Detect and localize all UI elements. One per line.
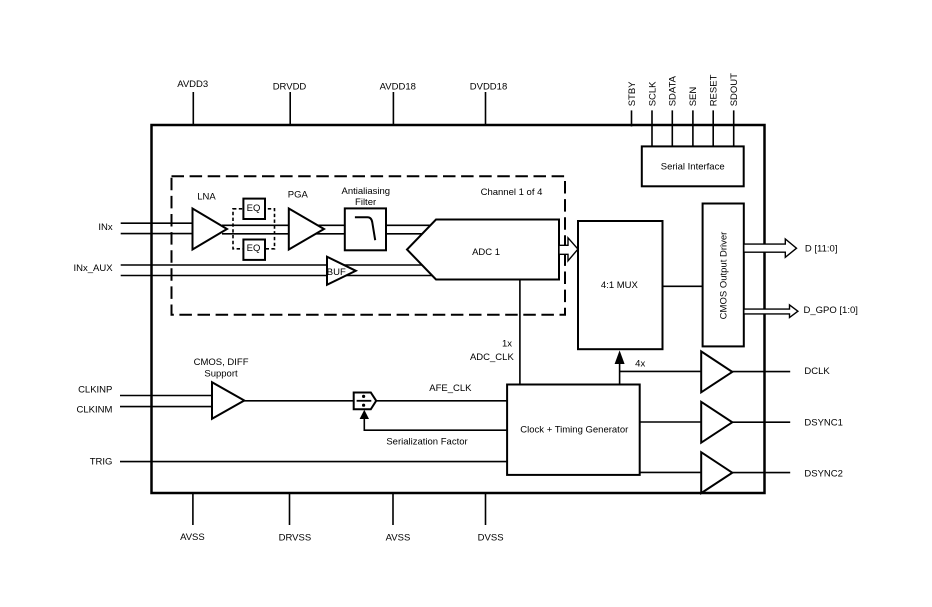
svg-text:Serialization Factor: Serialization Factor — [386, 437, 467, 448]
svg-text:BUF: BUF — [327, 267, 346, 278]
svg-text:AVDD3: AVDD3 — [177, 79, 208, 90]
svg-text:4:1 MUX: 4:1 MUX — [601, 280, 639, 291]
svg-text:DRVDD: DRVDD — [273, 81, 307, 92]
svg-text:ADC_CLK: ADC_CLK — [470, 352, 514, 363]
svg-text:CLKINP: CLKINP — [78, 384, 112, 395]
svg-text:TRIG: TRIG — [90, 457, 113, 468]
svg-text:SDATA: SDATA — [668, 75, 679, 106]
svg-text:EQ: EQ — [247, 243, 261, 254]
svg-text:Filter: Filter — [355, 197, 376, 208]
svg-text:AVSS: AVSS — [386, 532, 411, 543]
svg-text:CMOS Output Driver: CMOS Output Driver — [719, 232, 730, 320]
svg-text:4x: 4x — [635, 359, 645, 370]
svg-text:Antialiasing: Antialiasing — [342, 186, 391, 197]
svg-text:LNA: LNA — [197, 192, 216, 203]
svg-text:AVDD18: AVDD18 — [380, 81, 416, 92]
svg-text:EQ: EQ — [247, 203, 261, 214]
svg-text:PGA: PGA — [288, 189, 309, 200]
svg-text:CMOS, DIFF: CMOS, DIFF — [194, 357, 249, 368]
svg-text:DCLK: DCLK — [804, 366, 830, 377]
svg-text:1x: 1x — [502, 338, 512, 349]
svg-text:RESET: RESET — [709, 74, 720, 106]
svg-text:Serial Interface: Serial Interface — [661, 162, 725, 173]
svg-text:DSYNC1: DSYNC1 — [804, 418, 843, 429]
svg-text:DRVSS: DRVSS — [279, 532, 312, 543]
svg-text:DVSS: DVSS — [478, 532, 504, 543]
svg-text:DSYNC2: DSYNC2 — [804, 469, 843, 480]
svg-text:SEN: SEN — [688, 87, 699, 107]
svg-text:ADC 1: ADC 1 — [472, 247, 500, 258]
svg-text:Support: Support — [204, 368, 238, 379]
svg-text:SDOUT: SDOUT — [729, 73, 740, 106]
svg-text:STBY: STBY — [627, 81, 638, 106]
svg-text:AFE_CLK: AFE_CLK — [429, 383, 472, 394]
svg-text:CLKINM: CLKINM — [76, 405, 112, 416]
svg-text:SCLK: SCLK — [647, 81, 658, 106]
svg-text:AVSS: AVSS — [180, 532, 205, 543]
svg-text:Clock + Timing Generator: Clock + Timing Generator — [520, 424, 628, 435]
svg-text:DVDD18: DVDD18 — [470, 81, 508, 92]
svg-text:INx_AUX: INx_AUX — [74, 263, 114, 274]
svg-text:Channel 1 of 4: Channel 1 of 4 — [481, 187, 543, 198]
svg-text:INx: INx — [98, 222, 113, 233]
svg-text:D_GPO [1:0]: D_GPO [1:0] — [804, 305, 858, 316]
svg-text:D [11:0]: D [11:0] — [805, 243, 838, 254]
